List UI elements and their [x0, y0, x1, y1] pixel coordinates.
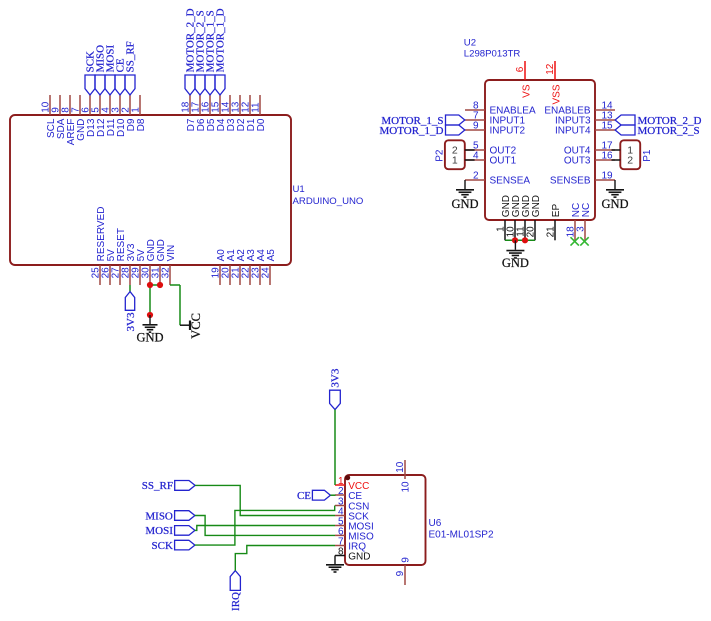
U1 pin 3 (D10)	[110, 95, 127, 137]
svg-text:3V3: 3V3	[125, 312, 137, 331]
U6 pin 1 (VCC)	[335, 476, 369, 492]
svg-text:SENSEB: SENSEB	[550, 176, 591, 187]
svg-text:11: 11	[250, 102, 261, 113]
junction at pin 30	[147, 282, 153, 288]
U2 pin 20 (GND)	[525, 195, 542, 240]
svg-text:GND: GND	[451, 197, 478, 211]
U1 pin 31 (GND)	[150, 239, 167, 285]
svg-text:24: 24	[260, 267, 271, 279]
global label MOSI	[145, 525, 195, 537]
global label CE	[297, 490, 330, 502]
svg-text:GND: GND	[531, 195, 542, 217]
global label CE	[115, 58, 127, 95]
no-connect X pin 18	[571, 237, 579, 245]
U1 pin 12 (D1)	[240, 95, 257, 131]
svg-text:VSS: VSS	[551, 84, 562, 104]
junction above ground	[147, 312, 153, 318]
svg-text:3V3: 3V3	[330, 368, 342, 387]
svg-text:8: 8	[338, 547, 344, 558]
power flag 3V3 above U6	[330, 368, 342, 409]
svg-text:EP: EP	[551, 204, 562, 218]
svg-text:INPUT4: INPUT4	[555, 126, 591, 137]
power flag 3V3 (pin 28)	[125, 285, 137, 331]
svg-text:MOTOR_2_S: MOTOR_2_S	[638, 125, 700, 137]
ground symbol GND under U1	[136, 315, 163, 345]
wire GND bus under U1	[150, 285, 160, 315]
U1 pin 18 (D7)	[180, 95, 197, 131]
svg-text:GND: GND	[601, 197, 628, 211]
U1 pin 14 (D3)	[220, 95, 237, 131]
svg-text:2: 2	[627, 154, 633, 166]
U2 pin 3 (NC)	[575, 203, 592, 241]
connector P1	[620, 140, 653, 169]
U2 pin 9 (INPUT2)	[465, 120, 526, 136]
svg-text:2: 2	[473, 170, 479, 181]
U6 pin 5 (MOSI)	[335, 517, 374, 533]
svg-text:6: 6	[515, 66, 526, 72]
U1 pin 2 (D9)	[120, 95, 137, 131]
U1 pin 24 (A5)	[260, 249, 277, 285]
global label MISO	[145, 510, 195, 522]
P1 pin 1 wire	[612, 149, 621, 151]
svg-text:IRQ: IRQ	[230, 592, 242, 611]
svg-text:9: 9	[400, 557, 411, 563]
hierarchical label MOTOR_2_D	[615, 115, 701, 127]
U1 pin 1 (D8)	[130, 95, 147, 131]
U1 pin 32 (VIN)	[160, 245, 177, 285]
junction dot U6 corner	[345, 475, 350, 480]
U1 pin 26 (5V)	[100, 249, 117, 285]
U2 pin 1 (GND)	[495, 195, 512, 240]
IC U6 E01-ML01SP2 body	[345, 475, 494, 565]
svg-text:VIN: VIN	[166, 245, 177, 262]
global label MOTOR_2_D	[185, 8, 197, 95]
U2 pin 4 (OUT1)	[465, 150, 517, 166]
svg-text:OUT1: OUT1	[490, 156, 517, 167]
U1 pin 19 (A0)	[210, 249, 227, 285]
U1 pin 30 (GND)	[140, 239, 157, 285]
svg-text:P1: P1	[642, 149, 653, 162]
U1 pin 4 (D11)	[100, 95, 117, 136]
svg-text:L298P013TR: L298P013TR	[464, 49, 521, 60]
svg-text:1: 1	[130, 107, 141, 113]
svg-text:GND: GND	[348, 551, 370, 562]
global label MOTOR_1_S	[205, 10, 217, 95]
svg-text:U1: U1	[293, 184, 305, 195]
U1 pin 15 (D4)	[210, 95, 227, 131]
U2 pin 6 (VS) power	[515, 61, 533, 98]
junction U2 pin 10	[512, 237, 518, 243]
svg-text:E01-ML01SP2: E01-ML01SP2	[429, 529, 494, 540]
svg-text:1: 1	[452, 154, 458, 166]
U6 pin 10 (antenna)	[395, 460, 411, 493]
svg-text:10: 10	[395, 461, 406, 473]
svg-text:NC: NC	[581, 203, 592, 217]
svg-text:U2: U2	[464, 38, 476, 49]
global label MISO	[95, 45, 107, 95]
svg-text:ARDUINO_UNO: ARDUINO_UNO	[293, 196, 364, 207]
wire SS_RF to SCK pin	[195, 485, 335, 515]
ground at SENSEA	[451, 180, 478, 211]
wire CE to pin 2	[330, 494, 335, 496]
IC U2 L298P013TR body	[464, 38, 595, 220]
U6 pin 9 (antenna)	[395, 557, 412, 585]
U1 pin 29 (5V)	[130, 249, 147, 285]
svg-text:2: 2	[338, 486, 344, 497]
U1 pin 21 (A2)	[230, 249, 247, 285]
P2 pin 2 wire	[465, 149, 475, 151]
svg-text:INPUT2: INPUT2	[490, 126, 526, 137]
svg-text:9: 9	[473, 120, 479, 131]
wire MISO to pin 6	[195, 516, 335, 536]
svg-text:VS: VS	[521, 84, 532, 98]
hierarchical label MOTOR_1_D	[380, 125, 465, 137]
U2 pin 21 (EP)	[545, 204, 562, 241]
connector P2	[434, 140, 464, 169]
global label SCK	[151, 540, 194, 552]
U1 pin 11 (D0)	[250, 95, 267, 131]
U2 pin 8 (ENABLEA)	[465, 100, 536, 116]
U1 pin 7 (GND)	[70, 95, 87, 141]
svg-text:U6: U6	[429, 518, 442, 529]
U1 pin 5 (D12)	[90, 95, 107, 137]
U1 pin 10 (SCL)	[40, 95, 57, 138]
U1 pin 16 (D5)	[200, 95, 217, 131]
svg-text:MOSI: MOSI	[145, 525, 173, 537]
wire SCK to CSN pin	[195, 506, 335, 546]
U2 pin 13 (INPUT3)	[555, 110, 615, 126]
wire VIN to VCC	[170, 285, 180, 325]
svg-text:D0: D0	[256, 118, 267, 131]
U1 pin 25 (RESERVED)	[90, 207, 107, 285]
U2 pin 10 (GND)	[505, 195, 522, 240]
U2 pin 14 (ENABLEB)	[544, 100, 615, 116]
U2 pin 15 (INPUT4)	[555, 120, 615, 136]
svg-text:SCK: SCK	[151, 540, 172, 552]
svg-text:MOTOR_1_D: MOTOR_1_D	[215, 8, 227, 72]
U2 pin 11 (GND)	[515, 195, 532, 240]
global label SCK	[85, 51, 97, 95]
U2 pin 7 (INPUT1)	[465, 110, 526, 126]
U1 pin 20 (A1)	[220, 249, 237, 285]
U1 pin 8 (AREF)	[60, 95, 77, 145]
global label SS_RF	[142, 480, 195, 492]
global label IRQ	[230, 571, 242, 611]
svg-text:CE: CE	[297, 490, 311, 502]
svg-text:21: 21	[545, 226, 556, 238]
U2 pin 5 (OUT2)	[465, 140, 517, 156]
svg-text:GND: GND	[136, 331, 163, 345]
U1 pin 13 (D2)	[230, 95, 247, 131]
junction U2 pin 11	[522, 237, 528, 243]
svg-text:15: 15	[602, 120, 614, 131]
global label MOTOR_1_D	[215, 8, 227, 95]
wire MOSI to pin 5	[195, 526, 335, 531]
U1 pin 17 (D6)	[190, 95, 207, 131]
junction at pin 31	[157, 282, 163, 288]
global label MOTOR_2_S	[195, 10, 207, 95]
U6 pin 8 (GND)	[335, 547, 370, 563]
U2 pin 17 (OUT4)	[564, 140, 615, 156]
P2 pin 1 wire	[465, 159, 475, 161]
svg-text:9: 9	[395, 570, 406, 576]
svg-text:OUT3: OUT3	[564, 156, 591, 167]
U6 pin 2 (CE)	[335, 486, 362, 502]
U2 pin 19 (SENSEB)	[550, 170, 615, 186]
U1 pin 6 (D13)	[80, 95, 97, 137]
svg-text:32: 32	[160, 267, 171, 279]
svg-text:10: 10	[400, 481, 411, 493]
no-connect X pin 3	[580, 237, 588, 245]
U6 pin 7 (IRQ)	[335, 537, 366, 553]
global label MOSI	[105, 45, 117, 95]
svg-text:16: 16	[602, 150, 614, 161]
svg-text:D8: D8	[136, 118, 147, 131]
U2 pin 12 (VSS) power	[545, 61, 563, 105]
global label SS_RF	[125, 41, 137, 95]
ground symbol GND under U2	[502, 240, 529, 270]
U1 pin 9 (SDA)	[50, 95, 67, 139]
U6 pin 3 (CSN)	[335, 497, 369, 513]
svg-text:12: 12	[545, 63, 556, 75]
svg-text:GND: GND	[502, 256, 529, 270]
svg-text:20: 20	[525, 226, 536, 238]
svg-text:P2: P2	[434, 149, 445, 162]
svg-text:19: 19	[602, 170, 614, 181]
ground symbol at U6 pin 8	[326, 556, 344, 573]
hierarchical label MOTOR_1_S	[381, 115, 464, 127]
svg-text:SS_RF: SS_RF	[125, 41, 137, 72]
U6 pin 4 (SCK)	[335, 507, 369, 523]
U1 pin 27 (RESET)	[110, 228, 127, 285]
U2 pin 2 (SENSEA)	[465, 170, 530, 186]
power symbol VCC	[180, 313, 203, 339]
U1 pin 23 (A4)	[250, 249, 267, 285]
P1 pin 2 wire	[612, 159, 621, 161]
wire IRQ to pin 7	[235, 546, 335, 571]
svg-text:MOTOR_1_D: MOTOR_1_D	[380, 125, 444, 137]
hierarchical label MOTOR_2_S	[615, 125, 700, 137]
wire 3V3 to VCC pin	[334, 410, 336, 485]
svg-text:VCC: VCC	[189, 313, 203, 339]
svg-text:SENSEA: SENSEA	[490, 176, 531, 187]
svg-text:SS_RF: SS_RF	[142, 480, 173, 492]
svg-text:MISO: MISO	[145, 510, 173, 522]
U2 pin 18 (NC)	[565, 203, 582, 241]
ground at SENSEB	[601, 180, 628, 211]
U2 pin 16 (OUT3)	[564, 150, 615, 166]
svg-text:CE: CE	[348, 491, 362, 502]
svg-text:A5: A5	[266, 249, 277, 262]
U1 pin 28 (3V3)	[120, 243, 137, 285]
U1 pin 22 (A3)	[240, 249, 257, 285]
IC U1 ARDUINO_UNO body	[10, 115, 363, 265]
svg-text:3: 3	[575, 226, 586, 232]
wire U2 GND bus	[505, 239, 535, 241]
U6 pin 6 (MISO)	[335, 527, 374, 543]
